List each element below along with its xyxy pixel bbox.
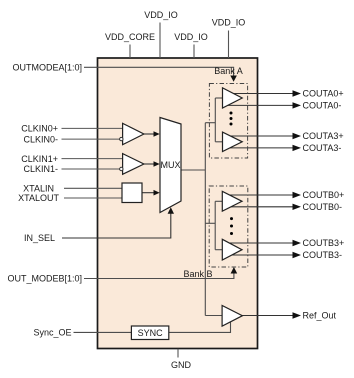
svg-text:VDD_IO: VDD_IO [212,18,246,28]
svg-text:COUTB0+: COUTB0+ [303,190,345,200]
svg-text:IN_SEL: IN_SEL [24,233,55,243]
svg-text:CLKIN0+: CLKIN0+ [21,124,58,134]
svg-text:VDD_IO: VDD_IO [174,32,208,42]
svg-text:CLKIN1-: CLKIN1- [23,164,58,174]
svg-text:CLKIN1+: CLKIN1+ [21,154,58,164]
svg-text:OUTMODEA[1:0]: OUTMODEA[1:0] [12,63,82,73]
svg-text:COUTA0-: COUTA0- [303,101,342,111]
svg-text:COUTA3-: COUTA3- [303,143,342,153]
svg-text:COUTB0-: COUTB0- [303,202,343,212]
svg-text:XTALIN: XTALIN [23,184,54,194]
svg-text:MUX: MUX [161,160,181,170]
svg-text:COUTA3+: COUTA3+ [303,131,344,141]
svg-text:SYNC: SYNC [138,328,164,338]
svg-text:VDD_IO: VDD_IO [144,10,178,20]
svg-text:COUTB3-: COUTB3- [303,250,343,260]
svg-text:OUT_MODEB[1:0]: OUT_MODEB[1:0] [7,274,82,284]
svg-text:GND: GND [171,360,192,370]
svg-text:CLKIN0-: CLKIN0- [23,134,58,144]
svg-text:VDD_CORE: VDD_CORE [105,32,155,42]
svg-text:COUTA0+: COUTA0+ [303,89,344,99]
svg-text:Bank B: Bank B [183,269,212,279]
svg-text:Sync_OE: Sync_OE [33,327,71,337]
svg-text:COUTB3+: COUTB3+ [303,238,345,248]
svg-text:Bank A: Bank A [214,66,243,76]
svg-text:XTALOUT: XTALOUT [18,193,59,203]
svg-text:Ref_Out: Ref_Out [303,311,337,321]
